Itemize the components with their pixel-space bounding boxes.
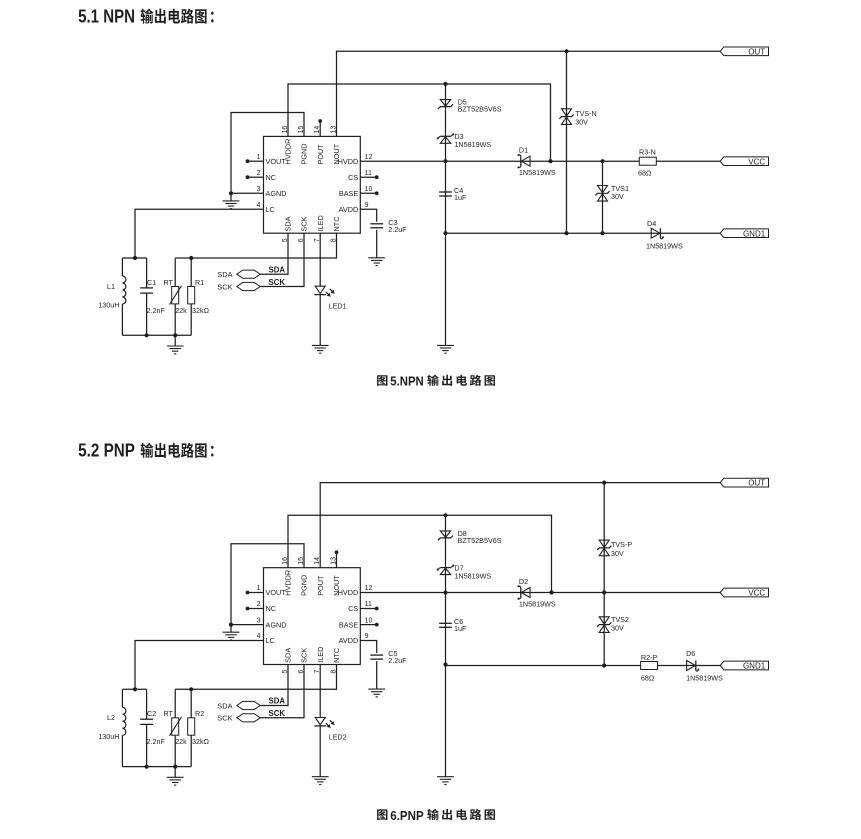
junction GND1/C6 xyxy=(443,662,447,666)
svg-text:30V: 30V xyxy=(611,192,624,201)
svg-text:16: 16 xyxy=(282,557,289,565)
pin 3 AGND wire xyxy=(231,624,264,626)
wire D8-D7-C6 column xyxy=(445,515,447,776)
capacitor C6 1uF xyxy=(439,622,452,624)
flag GND1 xyxy=(720,661,768,670)
svg-text:AVDD: AVDD xyxy=(339,636,359,645)
svg-text:TVS-N: TVS-N xyxy=(575,109,597,118)
svg-text:32kΩ: 32kΩ xyxy=(192,737,210,746)
wire cap to ground xyxy=(376,230,378,258)
wire SDA to pin5 xyxy=(260,665,288,706)
capacitor C2 2.2nF xyxy=(146,689,148,719)
pin 1 VOUT stub xyxy=(248,592,264,594)
resistor R1 32kohm xyxy=(190,258,192,335)
svg-text:RT: RT xyxy=(164,709,174,718)
svg-text:NTC: NTC xyxy=(332,648,341,663)
op-chip U2 body xyxy=(264,568,361,665)
svg-text:SCK: SCK xyxy=(300,648,309,663)
diode D2 1N5819WS xyxy=(520,588,522,598)
connector SDA xyxy=(237,701,260,709)
junction VCC/D8-D7-C6 xyxy=(443,590,447,594)
svg-text:AGND: AGND xyxy=(266,620,287,629)
svg-text:L2: L2 xyxy=(107,713,115,722)
LED LED2 xyxy=(315,718,325,725)
wire GND1 rail xyxy=(446,665,721,667)
svg-text:SCK: SCK xyxy=(217,282,232,291)
diode D7 1N5819WS xyxy=(438,568,440,570)
svg-text:VCC: VCC xyxy=(748,157,765,166)
TVS TVS1 30V xyxy=(598,186,608,193)
wire LED to ground xyxy=(319,726,321,777)
svg-text:SDA: SDA xyxy=(217,701,232,710)
pin 10 BASE stub xyxy=(360,624,376,626)
svg-text:ILED: ILED xyxy=(316,215,325,231)
inductor L2 130uH xyxy=(121,689,123,707)
svg-text:22k: 22k xyxy=(175,306,187,315)
capacitor C3 2.2uF xyxy=(370,223,383,225)
svg-text:1N5819WS: 1N5819WS xyxy=(454,140,491,149)
wire POUT pin14 to OUT net xyxy=(320,483,720,568)
svg-text:C2: C2 xyxy=(147,709,156,718)
svg-text:R2: R2 xyxy=(195,709,204,718)
svg-text:1N5819WS: 1N5819WS xyxy=(519,168,556,177)
ground bottom rail xyxy=(174,767,176,778)
pin 2 NC stub xyxy=(248,608,264,610)
svg-text:1N5819WS: 1N5819WS xyxy=(454,571,491,580)
resistor R2 32kohm xyxy=(190,689,192,766)
wire PGND pin15 to ground xyxy=(231,544,304,625)
wire LED to ground xyxy=(319,295,321,346)
svg-text:5.NPN: 5.NPN xyxy=(390,375,423,389)
wire NTC pin8 to thermistor rail xyxy=(175,665,336,690)
svg-text:130uH: 130uH xyxy=(98,301,119,310)
wire NOUT pin13 to OUT net xyxy=(337,51,721,136)
diode D4 1N5819WS xyxy=(659,228,661,238)
svg-text:10: 10 xyxy=(365,617,373,624)
svg-text:LC: LC xyxy=(266,636,275,645)
flag VCC xyxy=(720,588,768,597)
ground C5 xyxy=(376,688,378,690)
svg-text:TVS-P: TVS-P xyxy=(611,540,632,549)
svg-text:15: 15 xyxy=(298,557,305,565)
wire bottom rail xyxy=(122,766,191,768)
svg-text:HVDDR: HVDDR xyxy=(284,570,293,596)
flag VCC xyxy=(720,157,768,166)
svg-text:2.2nF: 2.2nF xyxy=(147,737,166,746)
diode D6 1N5819WS xyxy=(695,661,697,671)
node junction OUT/TVS-N xyxy=(564,49,568,53)
svg-text:9: 9 xyxy=(365,633,369,640)
svg-text:SCK: SCK xyxy=(269,709,286,718)
junction rail/RT xyxy=(173,765,177,769)
svg-text:R2-P: R2-P xyxy=(641,653,658,662)
svg-text:VCC: VCC xyxy=(748,589,765,598)
wire ILED pin7 to LED xyxy=(319,665,321,718)
svg-text:NOUT: NOUT xyxy=(332,575,341,596)
svg-text:16: 16 xyxy=(282,126,289,134)
svg-text:SDA: SDA xyxy=(269,697,286,706)
ground C3 xyxy=(376,257,378,259)
resistor R3-N 68ohm xyxy=(639,157,656,165)
thermistor RT 22k xyxy=(174,258,176,335)
svg-text:SDA: SDA xyxy=(284,648,293,663)
svg-text:PGND: PGND xyxy=(300,575,309,596)
svg-text:14: 14 xyxy=(314,557,321,565)
connector SCK xyxy=(237,714,260,722)
junction rail/R1 xyxy=(189,256,193,260)
pin 3 AGND wire xyxy=(231,192,264,194)
flag GND1 xyxy=(720,229,768,238)
flag OUT xyxy=(720,47,768,56)
junction VCC/D5-D3-C4 xyxy=(443,159,447,163)
svg-text:BASE: BASE xyxy=(339,620,359,629)
wire SCK to pin6 xyxy=(260,233,304,286)
wire TVS1 column xyxy=(602,161,604,233)
svg-text:5.1 NPN: 5.1 NPN xyxy=(78,6,135,26)
svg-text:2.2nF: 2.2nF xyxy=(147,306,166,315)
wire LC rail xyxy=(122,688,146,690)
wire SCK to pin6 xyxy=(260,665,304,718)
junction top loop/D5 xyxy=(443,82,447,86)
LED LED1 xyxy=(315,286,325,293)
wire bottom rail xyxy=(122,334,191,336)
svg-text:12: 12 xyxy=(365,585,373,592)
TVS TVS-N 30V xyxy=(562,109,572,116)
junction PGND/AGND xyxy=(229,191,233,195)
svg-text:POUT: POUT xyxy=(316,144,325,165)
flag OUT xyxy=(720,478,768,487)
junction TVS-N/GND1 xyxy=(564,231,568,235)
pin 11 CS stub xyxy=(360,608,376,610)
connector SDA xyxy=(237,270,260,278)
svg-text:SCK: SCK xyxy=(269,278,286,287)
svg-text:3: 3 xyxy=(257,617,261,624)
ground PGND-AGND xyxy=(230,193,232,201)
svg-text:9: 9 xyxy=(365,202,369,209)
wire LC rail xyxy=(122,257,146,259)
junction TVS2/GND1 xyxy=(602,663,606,667)
svg-text:NC: NC xyxy=(266,604,277,613)
wire D5-D3-C4 column xyxy=(445,84,447,345)
svg-text:11: 11 xyxy=(365,170,372,177)
svg-text:R3-N: R3-N xyxy=(639,148,656,157)
thermistor RT 22k xyxy=(174,689,176,766)
ground C4 column xyxy=(445,344,447,346)
zener D8 BZT52B5V6S xyxy=(438,536,453,541)
pin 2 NC stub xyxy=(248,176,264,178)
caption fig6 CJK xyxy=(427,809,439,820)
junction TVS1/GND1 xyxy=(600,231,604,235)
wire cap to ground xyxy=(376,661,378,689)
capacitor C1 2.2nF xyxy=(146,258,148,288)
junction loop/VCC xyxy=(548,159,552,163)
svg-text:1: 1 xyxy=(257,154,261,161)
heading CJK 输出电路图： xyxy=(141,8,154,23)
svg-text:1uF: 1uF xyxy=(454,624,467,633)
svg-text:LED1: LED1 xyxy=(329,301,347,310)
svg-text:GND1: GND1 xyxy=(743,662,766,671)
wire AVDD pin9 to C5 xyxy=(360,641,376,654)
svg-text:1N5819WS: 1N5819WS xyxy=(646,242,683,251)
svg-text:NTC: NTC xyxy=(332,217,341,232)
node junction OUT/TVS-P xyxy=(602,481,606,485)
wire AVDD pin9 to C3 xyxy=(360,209,376,222)
op-chip U1 body xyxy=(264,136,361,233)
capacitor C5 2.2uF xyxy=(370,654,383,656)
svg-text:CS: CS xyxy=(348,604,358,613)
junction GND1/C4 xyxy=(443,231,447,235)
svg-text:CS: CS xyxy=(348,173,358,182)
svg-text:BZT52B5V6S: BZT52B5V6S xyxy=(458,536,502,545)
pin 4 LC wire xyxy=(135,209,264,258)
svg-text:22k: 22k xyxy=(175,737,187,746)
connector SCK xyxy=(237,282,260,290)
svg-text:ILED: ILED xyxy=(316,647,325,663)
svg-text:2: 2 xyxy=(257,601,261,608)
wire HVDDR pin16 loop to VCC rail xyxy=(288,515,552,592)
svg-text:1: 1 xyxy=(257,585,261,592)
diode D1 1N5819WS xyxy=(520,156,522,166)
svg-text:13: 13 xyxy=(330,557,337,565)
ground bottom rail xyxy=(174,335,176,346)
wire TVS-P column xyxy=(603,483,605,593)
wire PGND pin15 to ground xyxy=(231,113,304,194)
junction rail/RT xyxy=(173,333,177,337)
svg-text:GND1: GND1 xyxy=(743,229,766,238)
TVS TVS2 30V xyxy=(599,617,609,624)
svg-text:SDA: SDA xyxy=(269,265,286,274)
junction rail/C2 xyxy=(145,765,149,769)
pin NOUT no-connect stub xyxy=(336,553,338,567)
junction PGND/AGND xyxy=(229,623,233,627)
svg-text:15: 15 xyxy=(298,126,305,134)
svg-text:130uH: 130uH xyxy=(98,732,119,741)
svg-text:5.2 PNP: 5.2 PNP xyxy=(78,441,135,461)
wire TVS-N column xyxy=(566,51,568,233)
svg-text:4: 4 xyxy=(257,633,261,640)
svg-text:1uF: 1uF xyxy=(454,193,467,202)
junction LC xyxy=(133,687,137,691)
svg-text:3: 3 xyxy=(257,186,261,193)
caption fig5 图 xyxy=(377,375,387,386)
svg-text:BASE: BASE xyxy=(339,189,359,198)
wire HVDDR pin16 loop to VCC rail xyxy=(288,84,551,161)
ground LED2 xyxy=(319,776,321,778)
wire HVDD pin12 VCC rail xyxy=(360,592,720,594)
pin POUT no-connect stub xyxy=(319,122,321,136)
svg-text:4: 4 xyxy=(257,202,261,209)
wire NTC pin8 to thermistor rail xyxy=(175,233,336,258)
caption fig5 CJK xyxy=(427,375,439,386)
svg-text:RT: RT xyxy=(164,278,174,287)
svg-text:30V: 30V xyxy=(611,549,624,558)
wire SDA to pin5 xyxy=(260,233,288,274)
wire ILED pin7 to LED xyxy=(319,233,321,286)
svg-text:2.2uF: 2.2uF xyxy=(388,656,407,665)
svg-text:SCK: SCK xyxy=(217,714,232,723)
pin 10 BASE stub xyxy=(360,192,376,194)
svg-text:OUT: OUT xyxy=(748,47,765,56)
heading CJK 输出电路图： xyxy=(141,443,154,458)
resistor R2-P 68ohm xyxy=(641,662,658,670)
inductor L1 130uH xyxy=(121,258,123,276)
junction loop/VCC xyxy=(549,590,553,594)
zener D5 BZT52B5V6S xyxy=(438,104,453,109)
svg-text:1N5819WS: 1N5819WS xyxy=(519,600,556,609)
ground C6 column xyxy=(445,776,447,778)
svg-text:30V: 30V xyxy=(611,623,624,632)
junction VCC/TVS-B xyxy=(600,159,604,163)
pin 1 VOUT stub xyxy=(248,160,264,162)
svg-text:NC: NC xyxy=(266,173,277,182)
junction rail/C1 xyxy=(145,333,149,337)
svg-text:BZT52B5V6S: BZT52B5V6S xyxy=(458,105,502,114)
svg-text:13: 13 xyxy=(330,126,337,134)
svg-text:10: 10 xyxy=(365,186,373,193)
svg-text:AVDD: AVDD xyxy=(339,205,359,214)
svg-text:LC: LC xyxy=(266,205,275,214)
TVS TVS-P 30V xyxy=(599,540,609,547)
svg-text:14: 14 xyxy=(314,126,321,134)
svg-text:POUT: POUT xyxy=(316,575,325,596)
svg-text:D1: D1 xyxy=(519,146,528,155)
junction LC xyxy=(133,256,137,260)
diode D3 1N5819WS xyxy=(438,136,440,138)
junction rail/R2 xyxy=(189,687,193,691)
pin 4 LC wire xyxy=(135,641,264,690)
svg-text:2: 2 xyxy=(257,170,261,177)
svg-text:SCK: SCK xyxy=(300,216,309,231)
svg-text:D4: D4 xyxy=(647,219,656,228)
svg-text:OUT: OUT xyxy=(748,479,765,488)
ground LED1 xyxy=(319,344,321,346)
svg-text:D6: D6 xyxy=(686,649,695,658)
wire GND1 rail xyxy=(446,232,721,234)
svg-text:R1: R1 xyxy=(195,278,204,287)
wire TVS2 column xyxy=(603,593,605,666)
svg-text:6.PNP: 6.PNP xyxy=(390,809,423,823)
caption fig6 图 xyxy=(377,809,387,820)
svg-text:SDA: SDA xyxy=(284,216,293,231)
svg-text:2.2uF: 2.2uF xyxy=(388,225,407,234)
svg-text:SDA: SDA xyxy=(217,270,232,279)
svg-text:AGND: AGND xyxy=(266,189,287,198)
svg-text:HVDDR: HVDDR xyxy=(284,139,293,165)
svg-text:68Ω: 68Ω xyxy=(638,168,652,177)
svg-text:L1: L1 xyxy=(107,282,115,291)
svg-text:LED2: LED2 xyxy=(329,733,347,742)
ground PGND-AGND xyxy=(230,625,232,633)
svg-text:PGND: PGND xyxy=(300,143,309,164)
svg-text:D2: D2 xyxy=(519,577,528,586)
svg-text:68Ω: 68Ω xyxy=(641,673,655,682)
wire HVDD pin12 VCC rail xyxy=(360,160,720,162)
capacitor C4 1uF xyxy=(439,191,452,193)
svg-text:12: 12 xyxy=(365,154,373,161)
pin 11 CS stub xyxy=(360,176,376,178)
svg-text:C1: C1 xyxy=(147,278,156,287)
svg-text:11: 11 xyxy=(365,601,372,608)
junction top loop/D8 xyxy=(443,513,447,517)
junction VCC/TVS-B xyxy=(602,590,606,594)
svg-text:NOUT: NOUT xyxy=(332,143,341,164)
svg-text:30V: 30V xyxy=(575,118,588,127)
svg-text:1N5819WS: 1N5819WS xyxy=(686,673,723,682)
svg-text:32kΩ: 32kΩ xyxy=(192,306,210,315)
